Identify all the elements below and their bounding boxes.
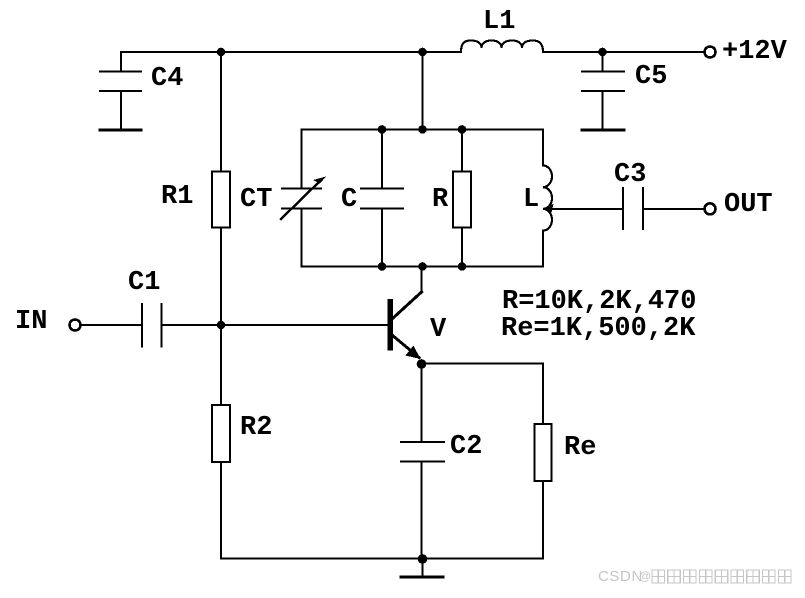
wire tank left edge upper	[301, 130, 303, 189]
node dot top rail C5	[598, 48, 607, 57]
wire collector column rail to tank	[422, 52, 424, 130]
node dot tank bottom C	[378, 262, 387, 271]
svg-text:C: C	[341, 185, 357, 215]
svg-text:CT: CT	[240, 185, 272, 215]
wire R1 bottom to base node	[220, 228, 222, 326]
node dot top rail R1	[217, 48, 226, 57]
wire L tap to C3 with arrowhead	[547, 208, 623, 210]
capacitor C5	[582, 52, 624, 130]
capacitor C1	[142, 304, 162, 347]
wire emitter node down to C2	[421, 364, 423, 442]
node dot tank top C	[378, 125, 387, 134]
resistor R2	[212, 405, 230, 462]
wire top supply rail right segment	[543, 51, 704, 53]
inductor L1	[461, 41, 543, 53]
svg-text:+12V: +12V	[722, 37, 788, 67]
svg-text:L1: L1	[483, 7, 515, 37]
resistor R tank	[453, 130, 471, 267]
svg-text:C4: C4	[151, 64, 183, 94]
svg-text:OUT: OUT	[724, 190, 773, 220]
resistor Re	[535, 424, 552, 481]
svg-text:C1: C1	[128, 268, 160, 298]
wire emitter node right to Re	[422, 363, 544, 365]
wire tank top line	[302, 129, 544, 131]
node dot tank top center	[418, 125, 427, 134]
watermark CSDN	[598, 568, 791, 585]
inductor L tank right edge	[543, 130, 552, 267]
resistor R1	[212, 172, 230, 228]
node dot tank bottom R	[458, 262, 467, 271]
node dot base	[217, 321, 226, 330]
capacitor C3	[623, 188, 704, 229]
terminal OUT	[705, 203, 716, 214]
svg-text:Re: Re	[564, 433, 596, 463]
ground	[401, 559, 443, 578]
svg-text:CSDN: CSDN	[598, 568, 643, 585]
capacitor C tank	[361, 130, 403, 267]
wire C1 to base	[162, 324, 389, 326]
svg-text:R: R	[432, 185, 449, 215]
wire IN to C1	[81, 324, 143, 326]
wire top supply rail left segment	[121, 51, 461, 53]
svg-text:Re=1K,500,2K: Re=1K,500,2K	[501, 314, 696, 344]
wire R2 bottom	[220, 462, 222, 559]
svg-text:C5: C5	[635, 62, 667, 92]
node dot tank top R	[458, 125, 467, 134]
terminal +12V	[705, 47, 716, 58]
svg-text:IN: IN	[15, 307, 47, 337]
svg-text:C3: C3	[614, 160, 646, 190]
wire bottom rail	[221, 558, 543, 560]
svg-text:R1: R1	[161, 182, 193, 212]
node dot emitter	[417, 359, 427, 369]
terminal IN	[70, 320, 81, 331]
svg-text:L: L	[523, 185, 539, 215]
transistor V	[388, 267, 422, 360]
svg-text:C2: C2	[450, 432, 482, 462]
wire tank bottom line	[302, 266, 544, 268]
capacitor C4	[100, 52, 141, 130]
wire R1 column top	[220, 52, 222, 172]
svg-text:V: V	[430, 315, 447, 345]
node dot top rail collector column	[418, 48, 427, 57]
svg-text:R2: R2	[240, 413, 272, 443]
node dot tank bottom center	[418, 262, 427, 271]
wire R2 column	[220, 325, 222, 405]
capacitor C2	[401, 442, 444, 559]
wire Re column top	[542, 364, 544, 425]
svg-text:R=10K,2K,470: R=10K,2K,470	[502, 287, 696, 317]
node dot bottom rail	[418, 554, 428, 564]
svg-text:@: @	[639, 569, 651, 583]
wire Re bottom	[542, 481, 544, 559]
capacitor CT (variable)	[281, 177, 326, 220]
wire tank left edge lower	[301, 209, 303, 267]
